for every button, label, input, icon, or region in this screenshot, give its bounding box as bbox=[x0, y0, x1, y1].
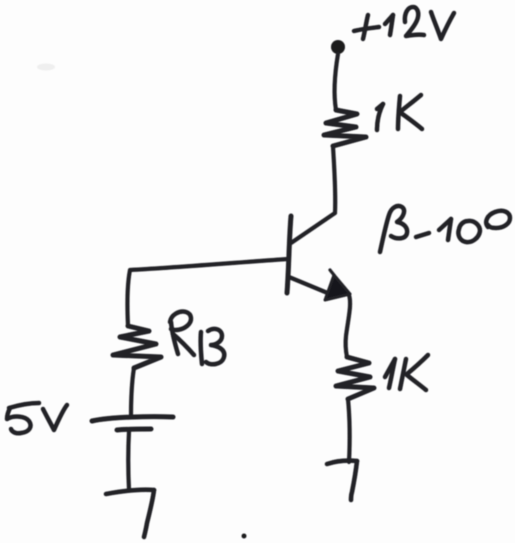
transistor Q1 emitter lead bbox=[289, 277, 330, 294]
resistor R1 (collector 1K) bbox=[324, 110, 366, 146]
wire: R2 to ground bbox=[348, 399, 350, 462]
ground (left) bbox=[106, 490, 154, 537]
wire: down to RB bbox=[127, 270, 130, 326]
resistor RB bbox=[113, 326, 161, 368]
faint smudge bbox=[37, 64, 55, 71]
label +12V bbox=[354, 7, 454, 39]
transistor Q1 collector lead bbox=[291, 213, 335, 243]
wire: R1 to collector bend bbox=[333, 146, 335, 213]
label RB bbox=[170, 312, 224, 365]
transistor Q1 emitter arrow bbox=[325, 275, 350, 300]
wire: +12V dot to R1 bbox=[335, 54, 338, 110]
label 1K (collector resistor) bbox=[377, 95, 422, 130]
wire: base to RB node bbox=[130, 259, 288, 270]
label 5V bbox=[7, 403, 67, 433]
label 1K (emitter resistor) bbox=[385, 355, 428, 390]
ground (right) bbox=[327, 461, 357, 500]
stray ink dot bbox=[242, 534, 247, 539]
wire: battery to ground bbox=[126, 431, 131, 490]
node: supply dot bbox=[331, 40, 345, 54]
resistor R2 (emitter 1K) bbox=[336, 357, 374, 399]
label beta=100 bbox=[380, 206, 510, 252]
battery V1 short plate bbox=[117, 429, 151, 430]
transistor Q1 base bar bbox=[287, 216, 291, 293]
wire: emitter arrow to R2 bbox=[346, 295, 350, 357]
battery V1 long plate bbox=[92, 417, 173, 421]
wire: RB to battery bbox=[131, 368, 134, 416]
